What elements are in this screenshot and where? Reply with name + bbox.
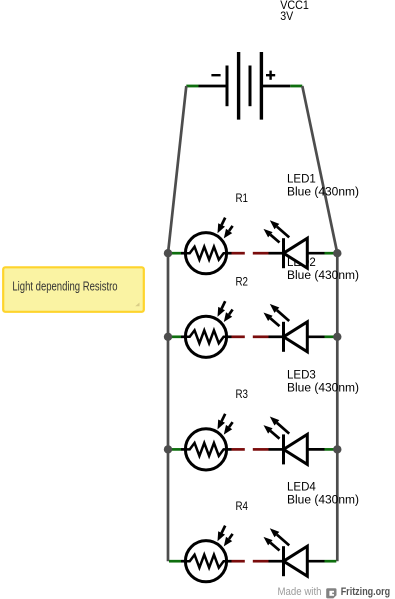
wire battery positive lead <box>261 85 302 88</box>
svg-text:Fritzing.org: Fritzing.org <box>341 586 391 598</box>
node A3 (left junction) <box>164 445 172 453</box>
svg-text:R3: R3 <box>236 389 249 401</box>
wire LED4 left lead (unconnected red tip) <box>253 560 284 563</box>
wire LED LED2 to right rail <box>307 335 336 338</box>
wire LED2 left lead (unconnected red tip) <box>253 335 284 338</box>
wire node to photoresistor R4 <box>169 560 185 563</box>
node A2 (left junction) <box>164 333 172 341</box>
svg-text:Light depending Resistro: Light depending Resistro <box>12 278 117 293</box>
photoresistor R4 (LDR) <box>185 526 232 582</box>
battery VCC1 <box>211 52 275 120</box>
wire node to photoresistor R2 <box>169 335 185 338</box>
wire right rail: node B1 to node B2 <box>336 253 339 337</box>
wire left rail: node A3 down to row 4 corner <box>167 449 170 561</box>
svg-text:Blue (430nm): Blue (430nm) <box>287 383 359 395</box>
wire right rail: battery to node B1 <box>302 86 337 253</box>
wire LED LED4 to right rail <box>307 560 336 563</box>
node B3 (right junction) <box>333 445 341 453</box>
wire R4 right lead (unconnected red tip) <box>227 560 245 563</box>
wire R3 right lead (unconnected red tip) <box>227 448 245 451</box>
svg-text:R4: R4 <box>236 501 249 513</box>
photoresistor R3 (LDR) <box>185 414 232 470</box>
LED LED1 <box>264 220 308 268</box>
svg-text:3V: 3V <box>280 11 293 23</box>
wire LED LED3 to right rail <box>307 448 336 451</box>
label LED1 value (LED1 / Blue 430nm) <box>287 173 359 198</box>
wire right rail: node B2 to node B3 <box>336 337 339 450</box>
svg-text:Blue (430nm): Blue (430nm) <box>287 186 359 198</box>
wire left rail: node A1 to node A2 <box>167 253 170 337</box>
svg-text:Blue (430nm): Blue (430nm) <box>287 270 359 282</box>
svg-text:R2: R2 <box>236 277 249 289</box>
wire left rail: battery to node A1 <box>168 86 186 253</box>
made-with-Fritzing badge <box>278 586 391 598</box>
label LED3 value (LED3 / Blue 430nm) <box>287 370 359 395</box>
wire LED1 left lead (unconnected red tip) <box>253 252 284 255</box>
wire right rail: node B3 down to row 4 corner <box>336 449 339 561</box>
wire left rail: node A2 to node A3 <box>167 337 170 450</box>
node B1 (right junction) <box>333 249 341 257</box>
note: Light depending Resistro <box>3 267 144 312</box>
photoresistor R1 (LDR) <box>185 218 232 274</box>
wire node to photoresistor R3 <box>169 448 185 451</box>
node A1 (left junction) <box>164 249 172 257</box>
LED LED3 <box>264 417 308 465</box>
svg-text:LED1: LED1 <box>287 173 316 185</box>
svg-text:R1: R1 <box>236 193 249 205</box>
svg-text:Made with: Made with <box>278 586 322 598</box>
wire LED3 left lead (unconnected red tip) <box>253 448 284 451</box>
label LED4 value (LED4 / Blue 430nm) <box>287 481 359 506</box>
node B2 (right junction) <box>333 333 341 341</box>
label LED2 value (LED2 / Blue 430nm) <box>287 257 359 282</box>
photoresistor R2 (LDR) <box>185 301 232 357</box>
svg-text:LED3: LED3 <box>287 370 316 382</box>
wire LED LED1 to right rail <box>307 252 336 255</box>
svg-text:LED4: LED4 <box>287 481 316 493</box>
wire R2 right lead (unconnected red tip) <box>227 335 245 338</box>
wire R1 right lead (unconnected red tip) <box>227 252 245 255</box>
label VCC1 value (VCC1 / 3V) <box>280 0 309 23</box>
svg-text:Blue (430nm): Blue (430nm) <box>287 494 359 506</box>
wire node to photoresistor R1 <box>169 252 185 255</box>
wire battery negative lead <box>186 85 227 88</box>
LED LED4 <box>264 528 308 576</box>
LED LED2 <box>264 304 308 352</box>
